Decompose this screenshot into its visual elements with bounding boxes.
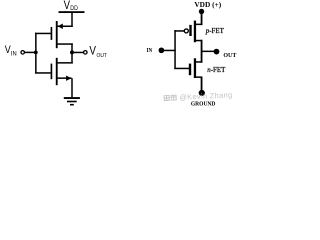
svg-text:OUT: OUT bbox=[97, 53, 108, 59]
svg-text:V: V bbox=[64, 0, 70, 12]
svg-text:V: V bbox=[89, 45, 96, 58]
svg-text:n-FET: n-FET bbox=[207, 67, 226, 74]
svg-text:VDD (+): VDD (+) bbox=[194, 1, 221, 9]
svg-text:IN: IN bbox=[147, 47, 153, 54]
svg-text:p-FET: p-FET bbox=[205, 28, 225, 35]
svg-text:GROUND: GROUND bbox=[191, 102, 216, 108]
svg-text:DD: DD bbox=[70, 5, 78, 12]
svg-text:IN: IN bbox=[11, 50, 17, 57]
svg-text:OUT: OUT bbox=[223, 53, 236, 59]
